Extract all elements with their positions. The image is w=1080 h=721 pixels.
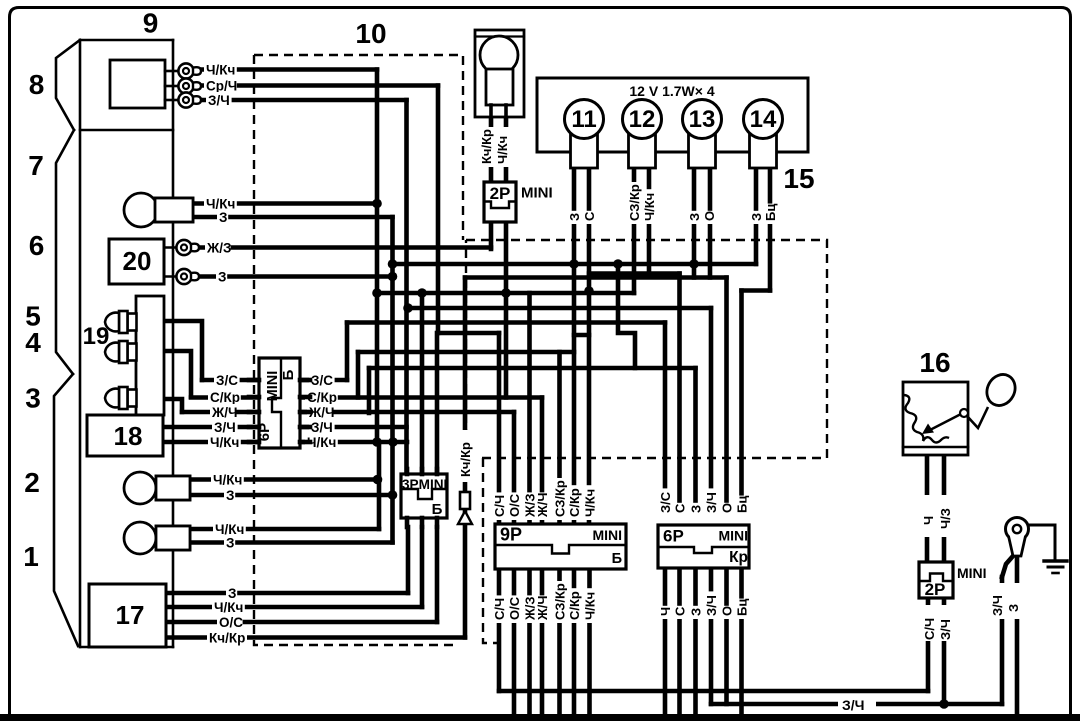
svg-text:Ж/Ч: Ж/Ч [211, 405, 237, 420]
svg-text:Ч/Кч: Ч/Кч [210, 435, 239, 450]
svg-text:З: З [226, 536, 234, 551]
svg-text:О/С: О/С [219, 615, 243, 630]
svg-text:З/Ч: З/Ч [938, 619, 953, 640]
svg-text:О/С: О/С [507, 596, 522, 620]
svg-text:З/Ч: З/Ч [311, 420, 333, 435]
svg-text:12: 12 [629, 106, 656, 133]
svg-text:З/Ч: З/Ч [704, 595, 719, 616]
svg-text:С/Ч: С/Ч [492, 598, 507, 620]
svg-text:18: 18 [114, 421, 143, 451]
svg-text:MINI: MINI [265, 371, 281, 402]
svg-text:З/С: З/С [658, 491, 673, 513]
svg-text:3РMINI: 3РMINI [402, 477, 447, 492]
svg-text:6: 6 [29, 230, 45, 261]
svg-text:З: З [226, 488, 234, 503]
svg-text:Ж/Ч: Ж/Ч [535, 493, 550, 519]
svg-text:Б: Б [612, 551, 622, 567]
svg-text:З: З [689, 608, 704, 616]
svg-text:Ч/Кч: Ч/Кч [214, 600, 243, 615]
svg-text:Ч/Кч: Ч/Кч [642, 193, 657, 221]
svg-text:Б: Б [432, 501, 443, 518]
svg-text:Ч: Ч [921, 516, 936, 525]
svg-text:2Р: 2Р [490, 184, 511, 203]
svg-text:Бц: Бц [735, 496, 750, 513]
svg-text:З/С: З/С [311, 373, 333, 388]
svg-text:С: С [673, 606, 688, 616]
svg-text:Кч/Кр: Кч/Кр [458, 442, 473, 477]
svg-text:1: 1 [23, 541, 39, 572]
svg-text:СЗ/Кр: СЗ/Кр [553, 480, 568, 517]
svg-text:Ср/Ч: Ср/Ч [206, 79, 237, 94]
svg-text:Кч/Кр: Кч/Кр [479, 129, 494, 164]
svg-text:Кч/Кр: Кч/Кр [209, 631, 245, 646]
svg-text:С/Ч: С/Ч [922, 618, 937, 640]
svg-text:СЗ/Кр: СЗ/Кр [627, 184, 642, 221]
svg-text:З/Ч: З/Ч [842, 697, 865, 713]
svg-text:О: О [720, 606, 735, 616]
svg-text:4: 4 [25, 327, 41, 358]
svg-text:12 V 1.7W× 4: 12 V 1.7W× 4 [629, 83, 714, 99]
svg-text:З: З [219, 210, 227, 225]
svg-text:MINI: MINI [521, 185, 553, 202]
svg-text:Ч/З: Ч/З [938, 508, 953, 529]
svg-text:З/Ч: З/Ч [208, 93, 230, 108]
svg-text:16: 16 [919, 347, 950, 378]
svg-text:З: З [1006, 604, 1021, 612]
svg-text:О/С: О/С [507, 493, 522, 517]
svg-text:С/Кр: С/Кр [210, 390, 240, 405]
svg-text:10: 10 [355, 18, 386, 49]
svg-text:С: С [673, 503, 688, 513]
svg-text:С/Ч: С/Ч [492, 495, 507, 517]
svg-text:Ч/Кч: Ч/Кч [583, 592, 598, 620]
svg-text:З: З [218, 270, 226, 285]
svg-text:О: О [720, 503, 735, 513]
svg-text:6Р: 6Р [663, 527, 684, 546]
svg-text:Ч: Ч [658, 607, 673, 616]
svg-text:С/Кр: С/Кр [567, 488, 582, 517]
svg-text:2: 2 [24, 467, 40, 498]
svg-text:MINI: MINI [957, 565, 987, 581]
svg-text:З/Ч: З/Ч [990, 595, 1005, 616]
svg-text:7: 7 [28, 150, 44, 181]
svg-text:3: 3 [25, 383, 41, 414]
svg-text:З: З [228, 586, 236, 601]
svg-text:Ч/Кч: Ч/Кч [213, 473, 242, 488]
svg-text:19: 19 [83, 323, 110, 350]
svg-text:Бц: Бц [763, 204, 778, 221]
svg-text:MINI: MINI [592, 527, 622, 543]
svg-text:9: 9 [143, 8, 159, 39]
svg-text:8: 8 [29, 69, 45, 100]
svg-text:СЗ/Кр: СЗ/Кр [553, 583, 568, 620]
svg-text:9Р: 9Р [500, 525, 522, 545]
svg-text:Б: Б [280, 369, 297, 380]
svg-text:Ч/Кч: Ч/Кч [495, 136, 510, 164]
svg-text:Ж/Ч: Ж/Ч [535, 596, 550, 622]
svg-text:З: З [567, 213, 582, 221]
svg-text:З: З [687, 213, 702, 221]
svg-text:З: З [749, 213, 764, 221]
svg-text:2Р: 2Р [925, 580, 946, 599]
svg-text:З/Ч: З/Ч [214, 420, 236, 435]
svg-text:15: 15 [783, 163, 814, 194]
svg-text:С: С [582, 211, 597, 221]
svg-text:З/Ч: З/Ч [704, 492, 719, 513]
svg-text:Ч/Кч: Ч/Кч [583, 489, 598, 517]
svg-text:13: 13 [689, 106, 716, 133]
svg-text:14: 14 [750, 106, 777, 133]
svg-text:З/С: З/С [216, 373, 238, 388]
svg-text:З: З [689, 505, 704, 513]
svg-text:Кр: Кр [729, 549, 748, 566]
svg-text:О: О [702, 211, 717, 221]
svg-text:11: 11 [571, 106, 596, 133]
svg-text:Ч/Кч: Ч/Кч [206, 63, 235, 78]
svg-text:Ж/З: Ж/З [206, 241, 231, 256]
svg-text:Бц: Бц [735, 599, 750, 616]
svg-text:С/Кр: С/Кр [567, 591, 582, 620]
svg-text:20: 20 [123, 246, 152, 276]
svg-text:17: 17 [116, 600, 145, 630]
svg-text:MINI: MINI [718, 528, 748, 544]
